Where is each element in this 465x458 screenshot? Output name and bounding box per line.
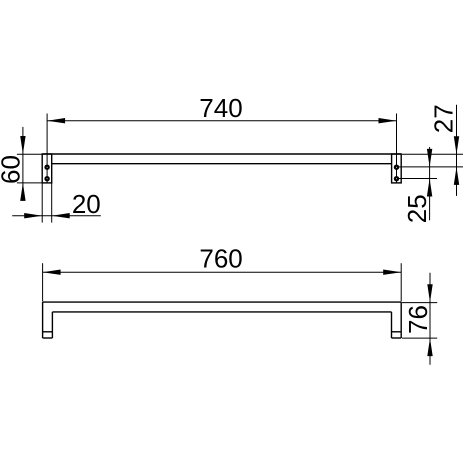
svg-text:27: 27 bbox=[429, 104, 459, 133]
svg-text:76: 76 bbox=[403, 305, 433, 334]
svg-text:760: 760 bbox=[199, 244, 242, 274]
svg-text:60: 60 bbox=[0, 155, 25, 184]
svg-text:20: 20 bbox=[72, 189, 101, 219]
svg-text:25: 25 bbox=[402, 194, 432, 223]
svg-text:740: 740 bbox=[199, 93, 242, 123]
